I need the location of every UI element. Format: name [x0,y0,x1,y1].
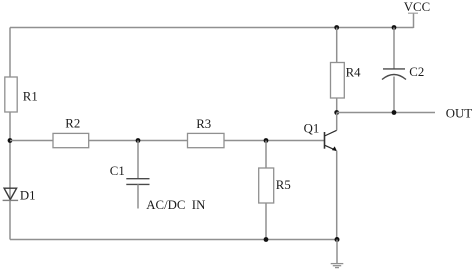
svg-text:R4: R4 [346,66,362,80]
wire: ground stub [336,240,338,264]
wire: middle base wire [10,140,325,142]
wire: VCC stub [413,13,415,28]
junction node: C2 top on top rail [392,25,397,30]
junction node: R5 tap on base wire [264,138,269,143]
junction node: C1 tap on base wire [136,138,141,143]
wire: R5 top lead [265,141,267,169]
svg-text:R2: R2 [65,117,80,131]
svg-text:C2: C2 [409,65,424,79]
wire: OUT net [337,112,435,114]
wire: R4 bottom lead [336,98,338,113]
capacitor C2 (polarized) [382,65,424,80]
power terminal VCC bar [408,12,418,14]
svg-text:R3: R3 [196,117,211,131]
wire: top rail from left rail to VCC corner [10,27,414,29]
resistor R2 [53,117,89,148]
diode D1 [3,188,36,202]
resistor R3 [188,117,225,148]
transistor Q1 [304,113,337,240]
capacitor C1 [110,164,150,185]
svg-text:VCC: VCC [404,0,430,14]
junction node: C2 / OUT [392,110,397,115]
resistor R4 [331,63,362,99]
wire: R4 top lead [336,28,338,63]
junction node: left rail / base wire [8,138,13,143]
resistor R5 [259,168,291,203]
svg-text:R5: R5 [276,178,291,192]
svg-text:R1: R1 [23,89,38,103]
ground [331,264,344,268]
junction node: collector / OUT [334,110,339,115]
wire: R5 bottom lead [265,203,267,240]
wire: C2 bottom lead [393,77,395,113]
svg-text:OUT: OUT [446,106,472,120]
junction node: R5 / bottom rail [264,237,269,242]
svg-text:Q1: Q1 [304,121,320,135]
wire: bottom rail [10,239,337,241]
junction node: R4 top on top rail [334,25,339,30]
resistor R1 [5,77,38,112]
svg-text:D1: D1 [20,188,36,202]
svg-text:AC/DC IN: AC/DC IN [146,198,205,212]
svg-text:C1: C1 [110,164,125,178]
wire: C2 top lead [393,28,395,69]
wire: left rail [9,28,11,240]
junction node: emitter / bottom rail / ground [335,237,340,242]
wire: C1 bottom lead (AC/DC input terminal) [137,184,139,208]
wire: C1 top lead [137,141,139,179]
